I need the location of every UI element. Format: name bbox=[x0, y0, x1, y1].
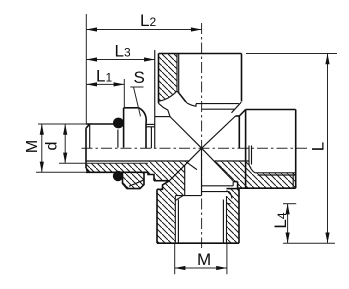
cone intersection X diagonals bbox=[169, 116, 235, 182]
svg-text:S: S bbox=[134, 68, 145, 87]
dim L3 bbox=[86, 59, 154, 61]
hex nut bbox=[118, 108, 146, 189]
through bore line bbox=[86, 160, 189, 162]
bottom port outline bbox=[157, 189, 239, 244]
svg-text:d: d bbox=[44, 142, 61, 151]
dim M bottom bbox=[175, 244, 227, 274]
bottom port counterbore interior (right half view) bbox=[175, 148, 233, 198]
hatch top port left wall bbox=[159, 54, 178, 102]
shelf bottom right bbox=[234, 182, 238, 189]
shelf bottom left bbox=[154, 181, 169, 190]
hatch left body chunk bbox=[148, 161, 189, 243]
svg-text:L: L bbox=[309, 142, 328, 151]
dim L1 bbox=[86, 79, 124, 107]
hatch hex nut lower block bbox=[123, 172, 145, 188]
top port outline bbox=[159, 54, 242, 104]
O-ring lower bbox=[113, 171, 123, 181]
right port counterbore bbox=[249, 146, 296, 189]
svg-text:L3: L3 bbox=[115, 42, 131, 61]
vertical centerline bbox=[201, 23, 203, 248]
hatch bottom port right wall bbox=[227, 189, 240, 244]
left shoulder bbox=[146, 50, 170, 148]
svg-text:M: M bbox=[197, 250, 211, 269]
hatch stud lower wall band bbox=[86, 163, 148, 172]
bottom port bore walls bbox=[175, 195, 230, 243]
dim d bbox=[64, 124, 66, 163]
dim L2 bbox=[86, 14, 201, 124]
hatch right body and right port lower wall bbox=[214, 161, 295, 188]
stud thread root line bbox=[59, 162, 148, 164]
shelf top right bbox=[236, 110, 246, 149]
right port outline bbox=[238, 110, 296, 189]
top port bore wall (thread) bbox=[159, 54, 197, 117]
O-ring upper bbox=[113, 118, 124, 129]
svg-text:L2: L2 bbox=[140, 11, 156, 30]
svg-text:M: M bbox=[24, 140, 41, 153]
svg-text:L1: L1 bbox=[96, 66, 112, 85]
dim L right bbox=[246, 54, 337, 244]
stud outline bbox=[86, 124, 148, 172]
top port shoulder (right half exterior) bbox=[196, 102, 241, 113]
stud-to-body step bbox=[148, 172, 154, 180]
svg-text:L4: L4 bbox=[271, 212, 290, 228]
dim L4 bbox=[283, 204, 296, 244]
dim M left bbox=[36, 124, 86, 172]
horizontal centerline bbox=[82, 147, 309, 149]
